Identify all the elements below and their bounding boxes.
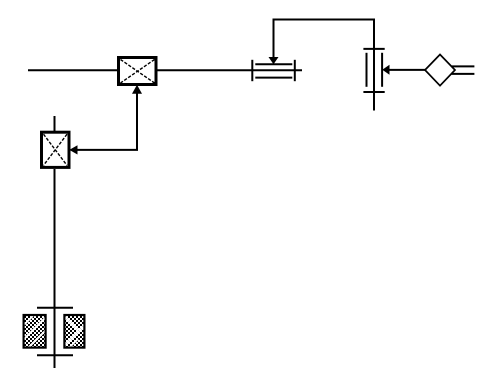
wire: from M2 arrow right then up to M1 bottom arrow — [77, 93, 138, 150]
wire: left input to crossed box M1 — [28, 69, 119, 71]
diamond D1 — [425, 55, 455, 86]
wire: up from E1 arrow, over the top, down into element E2 — [274, 20, 375, 111]
parallel-plate element E1 (horizontal) — [252, 60, 294, 81]
wire: M1 right side through element E1 — [158, 69, 303, 71]
crossed box M1 (top) — [119, 58, 157, 85]
parallel-plate element E2 (vertical) — [363, 49, 384, 92]
arrow onto E1 top plate (pointing down) — [269, 57, 279, 64]
double line output of D1 (upper) — [452, 65, 475, 67]
hatched-block element E3 top tick — [37, 307, 73, 309]
double line output of D1 (lower) — [452, 73, 475, 75]
hatched-block element E3 bottom tick — [37, 354, 73, 356]
E3 right hatched block — [64, 315, 86, 348]
E3 left hatched block — [22, 315, 48, 350]
wire: M2 bottom through element E3 — [54, 169, 56, 368]
arrow into M1 bottom (pointing up) — [132, 85, 142, 94]
crossed box M2 (left, vertical) — [42, 132, 70, 167]
arrow into M2 right side (pointing left) — [69, 145, 77, 154]
arrow onto E2 right plate (pointing left) — [382, 65, 389, 75]
wire: E2 arrow to diamond D1 — [389, 69, 426, 71]
wire: stub above M2 — [54, 116, 56, 131]
